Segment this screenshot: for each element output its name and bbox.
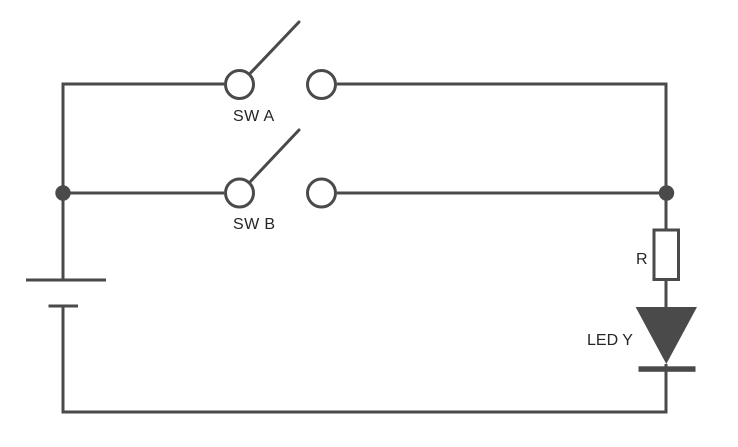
LED Y diode triangle [636,307,697,364]
LED Y cathode bar [639,366,696,372]
wire left vertical rail (top wire down to battery) [62,83,65,281]
node junction dot right [659,185,674,200]
node junction dot left [55,185,70,200]
switch SWB left contact circle [226,179,254,207]
svg-text:SW A: SW A [233,108,275,125]
wire middle-left horizontal (node to SWB left contact) [63,192,224,195]
battery negative plate (short) [49,305,79,308]
wire resistor to LED [665,280,668,309]
wire middle-right horizontal (SWB right contact to right rail) [337,192,667,195]
switch SWA blade (open) [250,22,300,74]
wire bottom horizontal rail [62,411,668,414]
wire top-left horizontal (battery+ to SWA left contact) [62,83,225,86]
battery positive plate (long) [26,279,106,282]
wire right vertical rail (top to resistor) [665,83,668,231]
wire battery negative down to bottom rail [62,306,65,414]
resistor R body [654,230,679,280]
switch SWB blade (open) [250,130,300,183]
svg-text:SW B: SW B [233,216,276,233]
wire top-right horizontal (SWA right contact to right rail) [337,83,668,86]
switch SWA right contact circle [308,71,336,99]
wire LED to bottom rail [665,364,668,412]
svg-text:R: R [636,251,648,268]
svg-text:LED Y: LED Y [587,332,633,349]
switch SWB right contact circle [308,179,336,207]
switch SWA left contact circle [226,71,254,99]
